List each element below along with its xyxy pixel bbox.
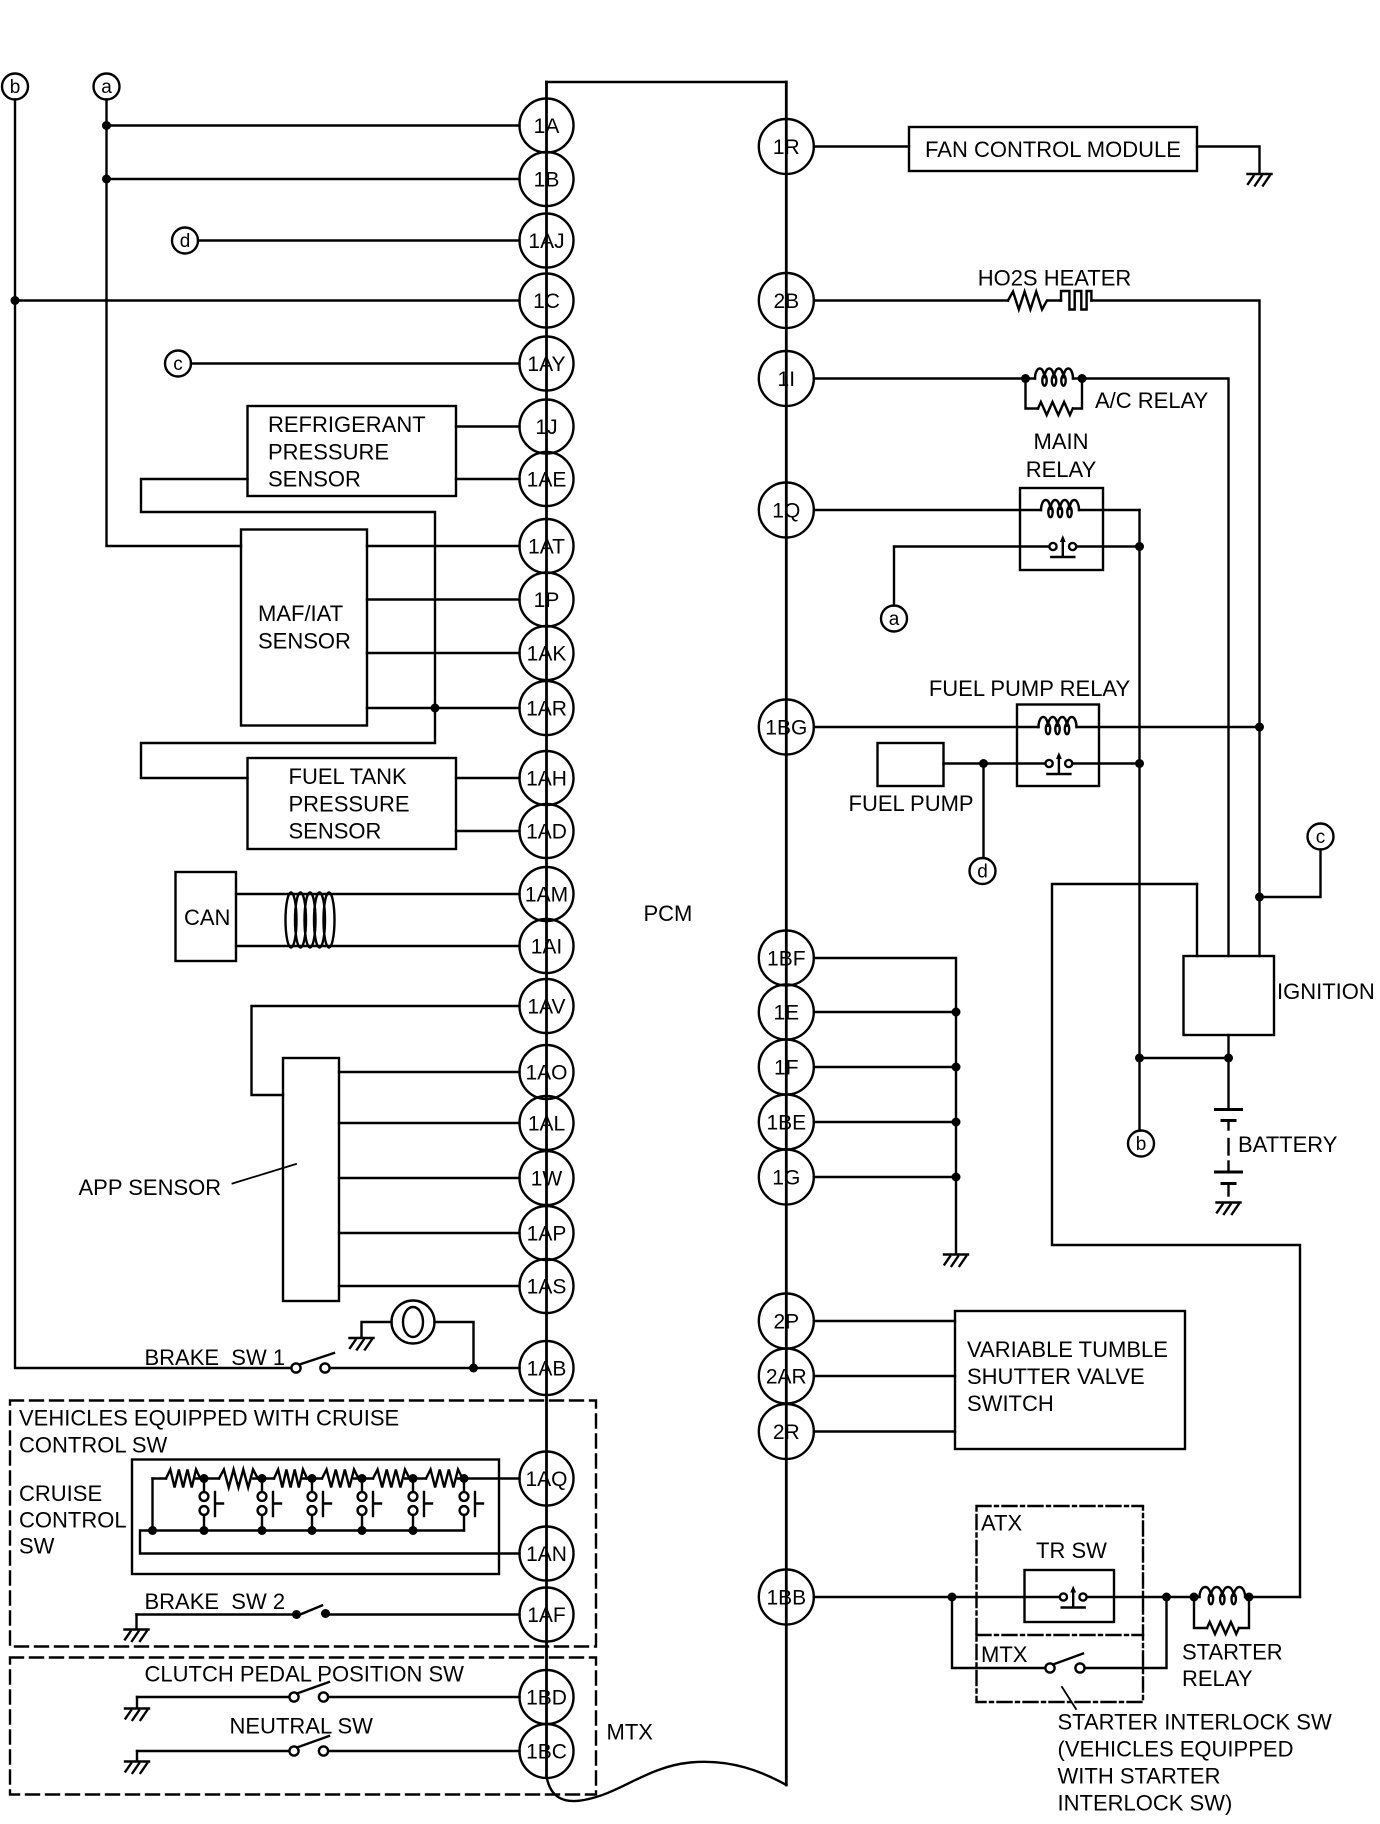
svg-text:ATX: ATX: [981, 1511, 1022, 1536]
PCM right bus wire (pin column 1R-1BB): [785, 82, 788, 1785]
pin 1B: [520, 152, 574, 206]
wire refrigerant sensor to fuel tank sensor loop: [141, 479, 435, 778]
junction dot cruise branch 6 top: [460, 1474, 469, 1483]
svg-text:1AO: 1AO: [525, 1062, 567, 1085]
svg-text:PCM: PCM: [644, 901, 693, 926]
junction dot 1G ground rail: [952, 1173, 961, 1182]
svg-text:2R: 2R: [773, 1421, 800, 1444]
A/C relay resistor loop: [1026, 379, 1039, 409]
svg-text:PRESSURE: PRESSURE: [289, 791, 410, 816]
cruise resistor R1: [166, 1470, 200, 1488]
pin 1AR: [520, 681, 574, 735]
wire 1F: [814, 1066, 956, 1068]
wire 1AS: [339, 1285, 520, 1287]
wire 1BB to TR SW: [814, 1596, 1060, 1598]
ground battery: [1217, 1203, 1241, 1215]
wire 1C: [15, 299, 520, 301]
svg-text:CLUTCH PEDAL POSITION SW: CLUTCH PEDAL POSITION SW: [145, 1662, 465, 1687]
wire fan control module to ground: [1197, 147, 1260, 174]
starter relay coil terminal dots: [1190, 1593, 1199, 1602]
cruise pushbutton SW4: [361, 1479, 363, 1493]
wire brake switch 1 to 1AB: [330, 1367, 520, 1369]
node b terminal: [2, 74, 28, 100]
junction dot cruise bottom rail 1: [148, 1526, 157, 1535]
cruise pushbutton SW5: [412, 1479, 414, 1493]
main relay coil: [1041, 500, 1079, 510]
svg-text:STARTER: STARTER: [1182, 1640, 1283, 1665]
cruise sw top rail: [153, 1477, 520, 1479]
pin 1R: [759, 119, 814, 174]
cruise pushbutton SW1: [203, 1479, 205, 1493]
A/C relay coil: [1026, 377, 1083, 379]
pin 1Q: [759, 483, 814, 538]
pin 1AD: [520, 804, 574, 858]
brake switch 1 contacts: [291, 1363, 300, 1372]
wire 1B: [107, 178, 520, 180]
brake switch 1 blade: [300, 1353, 335, 1365]
wire neutral switch to 1BC: [329, 1750, 520, 1752]
fuel pump relay box: [1017, 705, 1099, 787]
junction dot b-line 1C row: [11, 296, 20, 305]
svg-text:SENSOR: SENSOR: [258, 629, 351, 654]
wire CAN high to 1AM: [236, 893, 520, 895]
fuel pump relay coil: [1039, 717, 1077, 727]
svg-text:1W: 1W: [531, 1168, 563, 1191]
junction dot MTX branch left: [948, 1593, 957, 1602]
pin 1AY: [520, 337, 574, 391]
TR SW box: [1025, 1570, 1115, 1622]
junction dot 1AR loop: [431, 704, 440, 713]
svg-text:VARIABLE TUMBLE: VARIABLE TUMBLE: [967, 1337, 1168, 1362]
pin 1P: [520, 573, 574, 627]
HO2S heater resistor: [1008, 292, 1061, 310]
svg-text:1B: 1B: [534, 169, 560, 192]
svg-text:1AK: 1AK: [527, 643, 567, 666]
wire main relay contact to node a: [894, 547, 1020, 606]
wire ignition feed loop to starter relay: [1052, 884, 1300, 1597]
svg-text:1AS: 1AS: [527, 1276, 567, 1299]
svg-text:MAF/IAT: MAF/IAT: [258, 601, 343, 626]
svg-text:CONTROL: CONTROL: [19, 1508, 127, 1533]
pin 1AS: [520, 1259, 574, 1313]
junction dot cruise branch 5 top: [409, 1474, 418, 1483]
svg-text:BRAKE SW 2: BRAKE SW 2: [145, 1589, 286, 1614]
twisted pair symbol: [286, 893, 297, 948]
pin 1BG: [759, 700, 814, 755]
svg-text:1AQ: 1AQ: [525, 1468, 567, 1491]
junction dot cruise bottom rail 2: [200, 1526, 209, 1535]
wire 1AD: [456, 830, 520, 832]
pin 1AV: [520, 979, 574, 1033]
node d terminal: [172, 228, 198, 254]
svg-text:1BG: 1BG: [765, 717, 807, 740]
starter interlock switch contacts: [1045, 1663, 1054, 1672]
svg-text:1BC: 1BC: [526, 1741, 567, 1764]
svg-text:1AN: 1AN: [526, 1543, 567, 1566]
cruise control sw box: [132, 1460, 499, 1575]
wire 1J: [456, 425, 520, 427]
PCM connector top wire: [547, 81, 787, 83]
svg-text:FAN CONTROL MODULE: FAN CONTROL MODULE: [925, 137, 1181, 162]
pin 1W: [520, 1151, 574, 1205]
pin 1AB: [520, 1341, 574, 1395]
APP sensor leader line: [233, 1164, 297, 1184]
svg-text:b: b: [10, 77, 21, 98]
starter relay resistor loop: [1194, 1597, 1207, 1628]
pin 1AE: [520, 452, 574, 506]
pin 1BE: [759, 1095, 814, 1150]
svg-text:HO2S HEATER: HO2S HEATER: [978, 266, 1132, 291]
ground fan control module: [1248, 174, 1272, 186]
wire brake switch 2 left: [137, 1613, 294, 1615]
svg-text:CONTROL SW: CONTROL SW: [19, 1433, 168, 1458]
dashed box vehicles equipped with cruise control sw: [10, 1401, 596, 1647]
wire lamp to ground: [362, 1322, 392, 1337]
pin 1BD: [520, 1670, 574, 1724]
pin 1AL: [520, 1096, 574, 1150]
svg-text:1AB: 1AB: [527, 1358, 567, 1381]
wire neutral switch left: [137, 1750, 290, 1752]
wire 1E: [814, 1011, 956, 1013]
svg-text:1AP: 1AP: [527, 1223, 567, 1246]
junction dot MTX branch right: [1162, 1593, 1171, 1602]
svg-text:1F: 1F: [774, 1057, 799, 1080]
svg-text:INTERLOCK SW): INTERLOCK SW): [1058, 1791, 1233, 1816]
wire main relay coil to feed line: [1103, 509, 1140, 511]
svg-text:IGNITION: IGNITION: [1277, 979, 1375, 1004]
svg-text:1AH: 1AH: [526, 768, 567, 791]
junction dot main relay contact feed: [1135, 542, 1144, 551]
clutch switch blade: [297, 1682, 329, 1694]
refrigerant pressure sensor box: [248, 406, 457, 496]
junction dot fuel pump relay contact feed: [1135, 759, 1144, 768]
wire 1BF to ground rail: [814, 958, 956, 1254]
starter interlock pointer line: [1062, 1687, 1076, 1709]
junction dot a-line 1A row: [102, 121, 111, 130]
wire main relay contact right: [1103, 545, 1140, 547]
pin 1AF: [520, 1588, 574, 1642]
node b lower terminal: [1128, 1131, 1154, 1157]
stop lamp bulb: [392, 1301, 435, 1344]
pin 1BF: [759, 931, 814, 986]
pin 1J: [520, 400, 574, 454]
svg-text:1P: 1P: [534, 589, 560, 612]
ground PCM ground rail: [944, 1255, 968, 1267]
svg-text:SENSOR: SENSOR: [268, 467, 361, 492]
wire ignition to battery node: [1227, 1035, 1229, 1109]
svg-text:MAIN: MAIN: [1034, 429, 1089, 454]
TR SW contact switch: [1060, 1593, 1067, 1600]
cruise sw bottom rail wire: [140, 1531, 520, 1554]
pin 1A: [520, 99, 574, 153]
main relay box: [1020, 488, 1103, 570]
wire battery node to node b: [1140, 1057, 1229, 1059]
node c terminal: [165, 351, 191, 377]
svg-text:2AR: 2AR: [766, 1366, 807, 1389]
wire MTX interlock branch: [952, 1597, 1045, 1668]
svg-text:FUEL PUMP RELAY: FUEL PUMP RELAY: [929, 676, 1131, 701]
node a terminal: [94, 74, 120, 100]
junction dot cruise bottom rail 3: [258, 1526, 267, 1535]
pin 1AM: [520, 867, 574, 921]
ground brake switch 2: [135, 1615, 137, 1630]
svg-text:d: d: [977, 862, 988, 883]
ignition box: [1184, 956, 1275, 1035]
wire 1AH: [456, 777, 520, 779]
node c right terminal: [1308, 824, 1334, 850]
svg-text:1AV: 1AV: [527, 996, 565, 1019]
dashed box MTX switches: [10, 1658, 596, 1795]
pin 1AN: [520, 1527, 574, 1581]
wire node d branch: [982, 764, 984, 859]
wire node a vertical to MAF/IAT sensor: [107, 100, 242, 547]
clutch switch contacts: [289, 1692, 298, 1701]
cruise pushbutton SW2: [261, 1479, 263, 1493]
wire 1AY: [191, 362, 520, 364]
wire 1A: [107, 124, 520, 126]
junction dot 1BE ground rail: [952, 1118, 961, 1127]
svg-text:PRESSURE: PRESSURE: [268, 439, 389, 464]
pin 1F: [759, 1040, 814, 1095]
wire 1AR: [367, 707, 520, 709]
wire node b vertical to brake switch 1: [15, 100, 292, 1369]
wire starter interlock switch right: [1085, 1597, 1167, 1668]
svg-text:FUEL TANK: FUEL TANK: [289, 764, 408, 789]
wire 1AP: [339, 1232, 520, 1234]
pin 1I: [759, 351, 814, 406]
junction dot node b battery row: [1135, 1054, 1144, 1063]
svg-text:MTX: MTX: [981, 1642, 1028, 1667]
PCM left bus wire (pin column 1A-1BC): [545, 82, 548, 1776]
wire 1AE: [456, 478, 520, 480]
variable tumble shutter valve switch box: [955, 1311, 1185, 1449]
svg-text:RELAY: RELAY: [1182, 1666, 1253, 1691]
starter interlock switch blade: [1053, 1654, 1083, 1665]
pin 1AP: [520, 1206, 574, 1260]
svg-text:1G: 1G: [772, 1167, 800, 1190]
pin 2AR: [759, 1349, 814, 1404]
pin 1AO: [520, 1045, 574, 1099]
wire 1AJ: [198, 239, 520, 241]
wire clutch switch to 1BD: [329, 1696, 520, 1698]
wire 1BE: [814, 1121, 956, 1123]
node a lower terminal: [881, 606, 907, 632]
MAF/IAT sensor box: [241, 530, 367, 726]
svg-text:d: d: [180, 231, 191, 252]
wire 1AL: [339, 1122, 520, 1124]
pin 1AI: [520, 919, 574, 973]
wire 1BG to fuel pump relay coil: [814, 726, 1039, 728]
pin 1AT: [520, 519, 574, 573]
neutral switch contacts: [289, 1746, 298, 1755]
pin 2P: [759, 1294, 814, 1349]
junction dot ignition battery row: [1224, 1054, 1233, 1063]
junction dot cruise bottom rail 5: [358, 1526, 367, 1535]
cruise pushbutton SW6: [463, 1479, 465, 1493]
svg-text:SW: SW: [19, 1534, 55, 1559]
junction dot cruise branch 2 top: [258, 1474, 267, 1483]
pin 2B: [759, 273, 814, 328]
wire ignition pin left: [1196, 884, 1198, 956]
pin 2R: [759, 1404, 814, 1459]
svg-text:2P: 2P: [773, 1311, 799, 1334]
svg-text:CAN: CAN: [184, 905, 230, 930]
svg-text:BATTERY: BATTERY: [1238, 1132, 1338, 1157]
cruise resistor R2: [219, 1470, 258, 1488]
wire 1AT: [367, 545, 520, 547]
svg-text:1BF: 1BF: [767, 948, 806, 971]
cruise resistor R3: [274, 1470, 307, 1488]
pin 1AK: [520, 626, 574, 680]
svg-text:VEHICLES EQUIPPED WITH CRUISE: VEHICLES EQUIPPED WITH CRUISE: [19, 1406, 399, 1431]
pin 1BB: [759, 1570, 814, 1625]
svg-text:1AL: 1AL: [528, 1113, 565, 1136]
wire brake switch 2 to 1AF: [328, 1613, 520, 1615]
junction dot 1F ground rail: [952, 1063, 961, 1072]
brake switch 2 contacts closed: [292, 1610, 301, 1619]
starter relay coil: [1194, 1596, 1200, 1598]
svg-text:MTX: MTX: [607, 1720, 654, 1745]
A/C relay coil terminal dots: [1021, 374, 1030, 383]
svg-text:BRAKE SW 1: BRAKE SW 1: [145, 1345, 286, 1370]
svg-text:1AR: 1AR: [526, 698, 567, 721]
battery symbol: [1216, 1108, 1242, 1111]
cruise resistor R5: [373, 1470, 410, 1488]
ground lamp: [350, 1338, 374, 1350]
pin 1BC: [520, 1724, 574, 1778]
pin 1AH: [520, 751, 574, 805]
svg-text:1E: 1E: [773, 1002, 799, 1025]
fan control module box: [909, 127, 1197, 171]
svg-text:1BE: 1BE: [766, 1112, 806, 1135]
wire 2P: [814, 1320, 955, 1322]
wire 1AK: [367, 652, 520, 654]
wire CAN low to 1AI: [236, 945, 520, 947]
wire A/C relay to ignition: [1082, 379, 1229, 957]
wire 1P: [367, 598, 520, 600]
wire 1W: [339, 1177, 520, 1179]
APP sensor box: [283, 1058, 339, 1301]
brake switch 2 blade: [297, 1606, 323, 1617]
svg-text:CRUISE: CRUISE: [19, 1481, 102, 1506]
svg-text:1BD: 1BD: [526, 1687, 567, 1710]
wire 2B to HO2S heater: [814, 299, 1008, 301]
wire main relay feed vertical: [1138, 510, 1140, 1131]
wire 1AO: [339, 1071, 520, 1073]
svg-text:A/C RELAY: A/C RELAY: [1095, 388, 1209, 413]
junction dot HO2S line node c row: [1255, 893, 1264, 902]
svg-text:1AI: 1AI: [531, 936, 563, 959]
cruise resistor R6: [426, 1470, 463, 1488]
svg-text:SENSOR: SENSOR: [289, 819, 382, 844]
svg-text:REFRIGERANT: REFRIGERANT: [268, 412, 426, 437]
svg-text:a: a: [889, 609, 900, 630]
svg-text:c: c: [1316, 827, 1326, 848]
svg-text:a: a: [101, 77, 112, 98]
cruise sw left vertical wire: [151, 1479, 153, 1531]
wire PCM bottom wavy connection: [547, 1762, 787, 1801]
wire 1I to A/C relay: [814, 377, 1026, 379]
svg-text:1AD: 1AD: [526, 821, 567, 844]
svg-text:1AF: 1AF: [527, 1604, 566, 1627]
svg-text:NEUTRAL SW: NEUTRAL SW: [230, 1714, 374, 1739]
svg-text:1AJ: 1AJ: [528, 230, 564, 253]
junction dot cruise branch 3 top: [308, 1474, 317, 1483]
wire clutch switch left: [137, 1696, 290, 1698]
svg-text:1I: 1I: [778, 368, 796, 391]
wire HO2S heater to ignition: [1091, 301, 1259, 957]
wire starter relay to ignition loop: [1249, 1596, 1300, 1598]
fuel tank pressure sensor box: [248, 758, 457, 849]
pin 1E: [759, 985, 814, 1040]
pin 1G: [759, 1150, 814, 1205]
junction dot HO2S line fuel pump relay row: [1255, 723, 1264, 732]
wire 2AR: [814, 1375, 955, 1377]
wire 2R: [814, 1430, 955, 1432]
fuel pump box: [878, 743, 944, 786]
junction dot fuel pump node d branch: [979, 759, 988, 768]
wire fuel pump relay coil to HO2S line: [1099, 726, 1260, 728]
HO2S heater element symbol: [1061, 291, 1091, 310]
ground clutch switch: [136, 1697, 138, 1708]
wire 1Q to main relay coil: [814, 509, 1041, 511]
ground neutral switch: [136, 1751, 138, 1761]
svg-text:1R: 1R: [773, 136, 800, 159]
cruise pushbutton SW3: [311, 1479, 313, 1493]
svg-text:b: b: [1136, 1134, 1147, 1155]
svg-text:1BB: 1BB: [766, 1587, 806, 1610]
CAN box: [176, 872, 237, 961]
fuel pump relay contact switch: [1017, 762, 1099, 764]
svg-text:c: c: [173, 354, 183, 375]
junction dot a-line 1B row: [102, 175, 111, 184]
svg-text:(VEHICLES EQUIPPED: (VEHICLES EQUIPPED: [1058, 1737, 1294, 1762]
svg-text:FUEL PUMP: FUEL PUMP: [849, 791, 974, 816]
svg-text:1AY: 1AY: [527, 353, 565, 376]
svg-text:SWITCH: SWITCH: [967, 1391, 1054, 1416]
junction dot cruise branch 1 top: [200, 1474, 209, 1483]
wire 1G: [814, 1176, 956, 1178]
wire 1R to fan control module: [814, 145, 909, 147]
svg-text:RELAY: RELAY: [1026, 457, 1097, 482]
svg-text:APP SENSOR: APP SENSOR: [79, 1175, 222, 1200]
pin 1AJ: [520, 214, 574, 268]
junction dot cruise bottom rail 6: [409, 1526, 418, 1535]
svg-text:1J: 1J: [535, 416, 557, 439]
svg-text:1AT: 1AT: [528, 536, 565, 559]
svg-text:WITH STARTER: WITH STARTER: [1058, 1764, 1221, 1789]
svg-text:1AM: 1AM: [525, 884, 568, 907]
wire fuel pump relay contact right: [1099, 762, 1140, 764]
junction dot cruise branch 4 top: [358, 1474, 367, 1483]
junction dot cruise bottom rail 4: [308, 1526, 317, 1535]
neutral switch blade: [297, 1736, 329, 1748]
junction dot 1AB lamp branch: [469, 1364, 478, 1373]
cruise resistor R4: [322, 1470, 359, 1488]
node d lower terminal: [970, 858, 996, 884]
wire node c to HO2S line: [1260, 850, 1321, 898]
svg-text:1A: 1A: [534, 115, 560, 138]
main relay contact switch: [1020, 545, 1103, 547]
pin 1AQ: [520, 1452, 574, 1506]
svg-text:1AE: 1AE: [527, 469, 567, 492]
dash-dot divider ATX MTX: [977, 1634, 1144, 1636]
junction dot 1E ground rail: [952, 1008, 961, 1017]
pin 1C: [520, 274, 574, 328]
wire lamp to 1AB branch: [435, 1322, 474, 1368]
wire TR SW to starter relay: [1087, 1596, 1194, 1598]
dash-dot box ATX: [977, 1506, 1144, 1702]
